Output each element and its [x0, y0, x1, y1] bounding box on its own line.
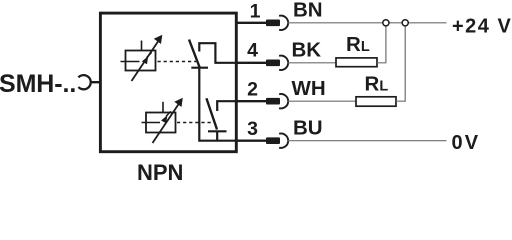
- pin 3 plug bar: [266, 137, 280, 144]
- svg-text:WH: WH: [292, 77, 326, 100]
- sensor S1 inner arrow: [142, 52, 152, 64]
- load resistor RL1: [336, 58, 377, 67]
- +24V rail wire: [288, 22, 447, 24]
- svg-text:RL: RL: [365, 72, 389, 95]
- sensor S2 left lead: [142, 122, 161, 124]
- wire WH to resistor: [288, 100, 357, 102]
- pin 1 wire: [237, 22, 267, 24]
- sensor S2 inner arrow: [161, 111, 171, 123]
- pin 2 socket arc: [279, 94, 288, 108]
- node junction on +24V rail for RL2: [402, 20, 408, 26]
- dashed control line S1 to Q1: [158, 61, 197, 63]
- pin 2 wire: [237, 100, 267, 102]
- svg-text:4: 4: [247, 40, 258, 62]
- pin 3 wire: [237, 140, 267, 142]
- svg-text:BK: BK: [292, 39, 322, 62]
- svg-text:SMH-..: SMH-..: [0, 70, 76, 98]
- sensor S1 box: [126, 51, 156, 71]
- sensor S2 box: [146, 113, 176, 133]
- svg-text:NPN: NPN: [137, 160, 183, 182]
- svg-text:BN: BN: [293, 0, 323, 22]
- svg-text:3: 3: [247, 118, 258, 140]
- switch Q1 emitter bar: [191, 67, 208, 69]
- 0V rail wire: [288, 140, 447, 142]
- wire RL2 to +24V rail: [396, 26, 405, 101]
- dashed control line S2 to Q2: [177, 122, 211, 124]
- svg-text:+24 V: +24 V: [452, 15, 512, 37]
- switch Q2 lever: [206, 98, 217, 129]
- switch Q1 emitter wire to 0V node: [199, 68, 238, 141]
- switch Q2 emitter bar: [208, 130, 227, 132]
- left plug socket arc: [78, 75, 90, 89]
- svg-text:0: 0: [452, 132, 463, 154]
- sensor housing box: [100, 13, 236, 152]
- svg-text:2: 2: [247, 79, 258, 101]
- pin 2 plug bar: [266, 98, 280, 105]
- left plug tick wire: [91, 81, 102, 83]
- pin 3 socket arc: [279, 134, 288, 148]
- wire BK to resistor: [288, 62, 337, 64]
- switch Q2 emitter wire: [216, 131, 218, 140]
- sensor S1 actuation diagonal arrow: [132, 35, 163, 81]
- sensor S1 top lead: [141, 41, 143, 51]
- sensor S2 actuation diagonal arrow: [153, 98, 183, 143]
- svg-text:1: 1: [250, 1, 261, 23]
- svg-text:RL: RL: [346, 33, 370, 56]
- svg-text:BU: BU: [293, 117, 323, 140]
- pin 1 socket arc: [279, 16, 288, 30]
- switch Q2 collector wire to pin 2: [217, 101, 238, 111]
- pin 4 plug bar: [266, 60, 280, 67]
- sensor S1 left lead: [121, 61, 140, 63]
- switch Q1 collector staircase wire to pin 4: [199, 43, 238, 63]
- switch Q1 lever: [189, 40, 200, 68]
- wire RL1 to +24V rail: [377, 26, 386, 63]
- sensor S2 top lead: [162, 102, 164, 113]
- pin 4 wire: [237, 62, 267, 64]
- pin 1 plug bar: [266, 20, 280, 27]
- load resistor RL2: [356, 97, 396, 106]
- svg-text:V: V: [465, 132, 479, 154]
- node junction on +24V rail for RL1: [383, 20, 389, 26]
- pin 4 socket arc: [279, 56, 288, 70]
